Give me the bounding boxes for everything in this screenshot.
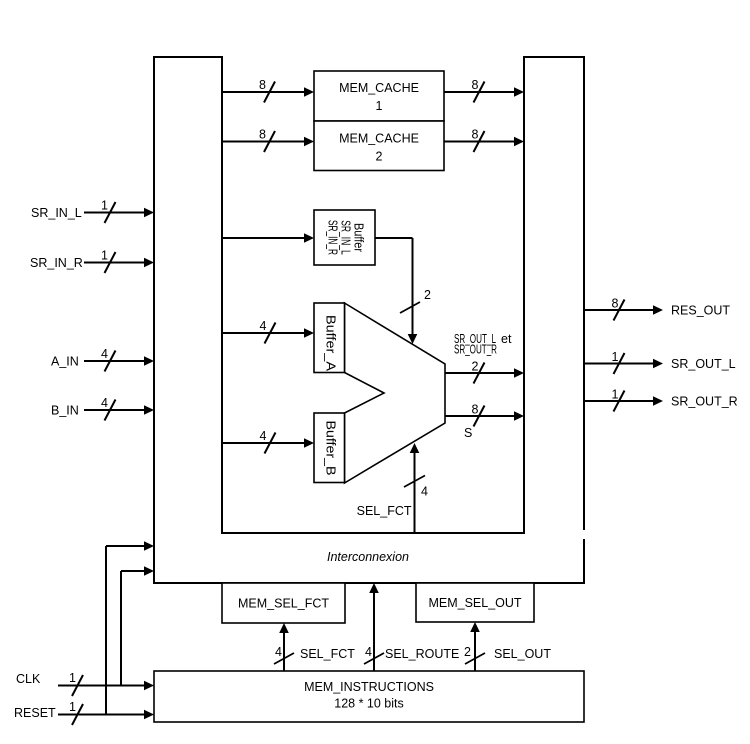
svg-text:4: 4 (275, 645, 282, 659)
svg-text:SR_OUT_R: SR_OUT_R (454, 343, 497, 357)
MEM_SEL_FCT box (222, 583, 345, 623)
svg-text:CLK: CLK (16, 672, 41, 686)
svg-text:8: 8 (612, 297, 619, 311)
svg-text:SEL_ROUTE: SEL_ROUTE (385, 647, 459, 661)
gap artifact on right edge (582, 530, 587, 539)
svg-text:4: 4 (101, 347, 108, 361)
Buffer_A box (314, 303, 345, 373)
wire bus 4 to Buffer_A (222, 323, 314, 344)
svg-text:4: 4 (365, 645, 372, 659)
svg-text:1: 1 (69, 671, 76, 685)
wire SEL_FCT bus 4 (279, 623, 289, 671)
svg-text:4: 4 (101, 396, 108, 410)
wire CLK feedback to interconnexion (121, 566, 154, 685)
wire RES_OUT output (584, 300, 663, 321)
svg-text:SEL_FCT: SEL_FCT (300, 647, 355, 661)
MEM_CACHE 2 box (314, 121, 444, 171)
svg-text:RES_OUT: RES_OUT (671, 304, 730, 318)
wire bus 8 to MEM_CACHE 1 (222, 82, 314, 103)
svg-text:8: 8 (472, 128, 479, 142)
svg-text:1: 1 (612, 388, 619, 402)
svg-text:Buffer_B: Buffer_B (324, 421, 338, 476)
svg-text:8: 8 (472, 403, 479, 417)
svg-text:A_IN: A_IN (51, 355, 79, 369)
wire bus 8 to MEM_CACHE 2 (222, 131, 314, 152)
svg-text:4: 4 (260, 319, 267, 333)
wire bus 4 to Buffer_B (222, 433, 314, 454)
MEM_CACHE 1 box (314, 71, 444, 121)
svg-text:1: 1 (101, 249, 108, 263)
wire A_IN input (84, 351, 154, 372)
ALU function unit (345, 303, 446, 483)
Buffer_B box (314, 413, 345, 483)
wire bus 8 from MEM_CACHE 2 (444, 131, 524, 152)
svg-text:S: S (464, 426, 472, 440)
wire bus 2 buffer to ALU (375, 238, 417, 344)
svg-text:1: 1 (612, 350, 619, 364)
MEM_INSTRUCTIONS box (154, 671, 584, 722)
wire RESET input (58, 704, 154, 725)
svg-text:et: et (501, 332, 512, 346)
svg-text:MEM_INSTRUCTIONS: MEM_INSTRUCTIONS (304, 680, 434, 694)
svg-text:SR_IN_R: SR_IN_R (326, 220, 340, 255)
wire SR_OUT_R output (584, 391, 663, 412)
wire SR_IN_R input (84, 252, 154, 273)
svg-text:8: 8 (259, 128, 266, 142)
svg-text:SR_IN_L: SR_IN_L (339, 220, 353, 255)
svg-text:1: 1 (101, 199, 108, 213)
svg-text:SR_IN_R: SR_IN_R (30, 256, 83, 270)
svg-text:SEL_OUT: SEL_OUT (494, 647, 551, 661)
svg-text:2: 2 (424, 288, 431, 302)
wire to shift buffer (222, 233, 314, 243)
svg-text:1: 1 (69, 700, 76, 714)
svg-text:2: 2 (464, 645, 471, 659)
wire bus 8 from MEM_CACHE 1 (444, 82, 524, 103)
svg-text:4: 4 (421, 485, 428, 499)
svg-text:4: 4 (260, 429, 267, 443)
svg-text:MEM_CACHE: MEM_CACHE (339, 132, 419, 146)
wire CLK input (58, 675, 154, 696)
wire bus 8 ALU S to right bar (445, 406, 524, 427)
svg-text:RESET: RESET (14, 706, 56, 720)
svg-text:Interconnexion: Interconnexion (327, 550, 409, 564)
svg-text:MEM_SEL_FCT: MEM_SEL_FCT (238, 597, 329, 611)
wire SEL_OUT bus 2 (470, 622, 480, 671)
svg-text:MEM_CACHE: MEM_CACHE (339, 81, 419, 95)
svg-text:Buffer_A: Buffer_A (324, 315, 338, 372)
outer interconnexion U-frame (154, 57, 584, 583)
svg-text:SR_OUT_L: SR_OUT_L (671, 357, 736, 371)
wire B_IN input (84, 400, 154, 421)
svg-text:8: 8 (472, 78, 479, 92)
wire SEL_FCT to ALU (410, 443, 420, 533)
wire bus 2 ALU SR_OUT to right bar (445, 363, 524, 384)
svg-text:SEL_FCT: SEL_FCT (357, 504, 412, 518)
svg-text:128 * 10 bits: 128 * 10 bits (334, 697, 404, 711)
svg-text:1: 1 (376, 99, 383, 113)
buffer SR_IN box (314, 210, 375, 265)
wire SEL_ROUTE bus 4 (369, 583, 379, 671)
svg-text:MEM_SEL_OUT: MEM_SEL_OUT (428, 596, 521, 610)
svg-text:SR_IN_L: SR_IN_L (31, 206, 82, 220)
wire SR_IN_L input (84, 202, 154, 223)
wire SR_OUT_L output (584, 353, 663, 374)
svg-text:8: 8 (259, 78, 266, 92)
MEM_SEL_OUT box (416, 583, 534, 622)
svg-text:2: 2 (376, 150, 383, 164)
svg-text:B_IN: B_IN (51, 404, 79, 418)
svg-text:2: 2 (472, 360, 479, 374)
svg-text:SR_OUT_R: SR_OUT_R (671, 395, 738, 409)
wire RESET feedback to interconnexion (106, 541, 154, 714)
svg-text:Buffer: Buffer (352, 223, 366, 252)
